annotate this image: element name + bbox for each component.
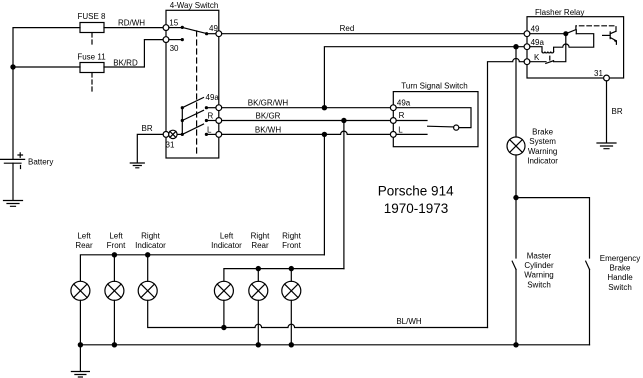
flasher internal: coil from 49a and loop to fixed contact — [530, 47, 542, 52]
svg-text:49a: 49a — [531, 38, 545, 47]
wire RD/WH fuse8 to 4-way 15 — [104, 27, 164, 29]
svg-text:BR: BR — [612, 107, 623, 116]
flasher internal: 49 feed to contact dot — [530, 33, 566, 35]
flasher terminal 49a — [524, 44, 530, 50]
node junction fuse11 branch — [10, 64, 15, 69]
svg-text:L: L — [207, 125, 212, 134]
wire K exit to BL/WH riser (hop at 516) — [488, 58, 525, 327]
svg-text:RD/WH: RD/WH — [118, 19, 145, 28]
wire left bus from fuses to battery — [13, 28, 80, 159]
ground battery — [4, 201, 23, 207]
lamp brake system warning indicator — [507, 137, 525, 155]
lamp Right Rear — [249, 281, 268, 300]
4-way internal: 15-49 contact — [169, 27, 182, 29]
wire BK/GR R to TS switch — [222, 120, 391, 122]
terminal 30 — [163, 37, 169, 43]
wire Red 4-way 49 to flasher 49 — [222, 33, 525, 35]
svg-text:Warning: Warning — [528, 147, 558, 156]
svg-text:Emergency: Emergency — [600, 254, 640, 263]
ground 4-way — [130, 163, 144, 168]
svg-text:System: System — [529, 137, 556, 146]
4-way internal: 30 stub — [169, 39, 182, 41]
wire BK/WH L to TS switch (hop at 343.9) — [222, 131, 391, 134]
svg-text:31: 31 — [166, 141, 175, 150]
ground bus — [80, 344, 589, 346]
svg-text:Fuse 11: Fuse 11 — [77, 53, 106, 62]
lamp Left Front — [105, 281, 124, 300]
wire left lamps feed (L circuit) — [80, 255, 324, 281]
svg-text:49: 49 — [209, 24, 218, 33]
wire BL/WH row (lamp3,4 to K riser) with hops — [148, 300, 488, 327]
terminal 15 — [163, 25, 169, 31]
flasher internal: contact rail down to K contact — [554, 34, 566, 62]
svg-text:Battery: Battery — [28, 158, 53, 167]
4-way internal: arm L — [181, 133, 184, 136]
fuse Fuse 11 — [80, 63, 104, 73]
svg-text:49: 49 — [531, 25, 540, 34]
svg-text:BK/WH: BK/WH — [255, 125, 281, 134]
svg-text:Brake: Brake — [532, 127, 553, 136]
svg-text:Right: Right — [282, 231, 301, 240]
svg-text:Warning: Warning — [524, 271, 554, 280]
wire battery to ground — [12, 163, 14, 200]
TS terminal 49a — [390, 105, 396, 111]
lamp top stubs — [114, 255, 291, 281]
wire BK/WH down to left lamps feed — [323, 134, 325, 254]
svg-text:BR: BR — [142, 124, 153, 133]
wire lamp to switches node — [515, 155, 517, 198]
svg-text:R: R — [208, 111, 214, 120]
lamp bottom wires — [80, 300, 291, 345]
svg-text:BL/WH: BL/WH — [396, 317, 422, 326]
svg-text:Right: Right — [251, 231, 270, 240]
svg-text:30: 30 — [170, 44, 179, 53]
flasher internal: K contact blade — [530, 61, 546, 63]
svg-text:Left: Left — [220, 231, 234, 240]
emergency brake handle switch — [586, 261, 590, 269]
svg-text:R: R — [399, 111, 405, 120]
Turn Signal Switch box — [393, 92, 478, 147]
svg-text:Brake: Brake — [610, 264, 631, 273]
flasher internal: dashed drive line — [576, 26, 616, 31]
ground lamps — [71, 372, 89, 378]
battery — [0, 158, 25, 160]
svg-text:BK/RD: BK/RD — [113, 59, 138, 68]
svg-text:Indicator: Indicator — [135, 241, 166, 250]
svg-text:K: K — [534, 53, 540, 62]
svg-text:Switch: Switch — [527, 280, 551, 289]
lamp Left Indicator — [214, 281, 233, 300]
svg-text:31: 31 — [594, 69, 603, 78]
4-way internal: arm 49a — [181, 106, 184, 109]
wire fuse11 feed — [13, 66, 80, 68]
svg-text:49a: 49a — [206, 93, 220, 102]
svg-text:Master: Master — [527, 251, 552, 260]
ground flasher — [597, 143, 616, 149]
wire brake indicator feed from 49a node — [515, 47, 517, 138]
TS terminal L — [390, 132, 396, 138]
svg-text:49a: 49a — [397, 99, 411, 108]
wire right lamps feed (R circuit) — [224, 269, 344, 282]
svg-text:Red: Red — [340, 24, 355, 33]
svg-text:15: 15 — [169, 18, 178, 27]
wire BR 31 to ground — [137, 134, 163, 162]
wire flasher 31 to ground — [606, 81, 608, 143]
svg-text:Front: Front — [107, 241, 126, 250]
terminal 49 — [216, 31, 222, 37]
svg-text:BK/GR: BK/GR — [256, 112, 281, 121]
4-way internal: pivot rail — [181, 108, 183, 135]
svg-text:Switch: Switch — [608, 283, 632, 292]
lamp Right Indicator — [138, 281, 157, 300]
svg-text:Handle: Handle — [607, 273, 633, 282]
flasher internal: moving contact arm — [566, 30, 576, 34]
terminal 31 — [163, 132, 169, 138]
svg-text:Indicator: Indicator — [527, 157, 558, 166]
svg-text:Porsche 914: Porsche 914 — [378, 184, 454, 199]
terminal R — [216, 118, 222, 124]
4-Way Switch box — [166, 10, 219, 158]
svg-text:Right: Right — [141, 231, 160, 240]
svg-text:Left: Left — [109, 231, 123, 240]
svg-text:Cylinder: Cylinder — [524, 261, 554, 270]
svg-text:4-Way Switch: 4-Way Switch — [170, 1, 219, 10]
terminal L — [216, 132, 222, 138]
fuse FUSE 8 — [80, 23, 104, 33]
svg-text:BK/GR/WH: BK/GR/WH — [248, 99, 289, 108]
flasher terminal 31 — [604, 75, 610, 81]
wire BK/GR down to right lamps feed — [343, 121, 345, 269]
svg-text:Left: Left — [77, 231, 91, 240]
indicator lamp in 4-way switch — [169, 130, 177, 138]
svg-text:Flasher Relay: Flasher Relay — [535, 8, 584, 17]
wire BK/RD fuse11 to 4-way 30 — [104, 40, 164, 67]
flasher terminal 49 — [524, 31, 530, 37]
master cylinder warning switch — [515, 198, 517, 258]
wire 49a link up to flasher 49a — [324, 47, 524, 108]
wire bus to ground — [79, 345, 81, 372]
TS terminal R — [390, 118, 396, 124]
wire BK/GR/WH 49a to TS switch — [222, 107, 391, 109]
wire to emergency brake branch — [516, 198, 590, 258]
svg-text:Indicator: Indicator — [211, 241, 242, 250]
lamp Right Front — [282, 281, 301, 300]
transistor in flasher — [609, 32, 611, 39]
svg-text:L: L — [398, 126, 403, 135]
node master/emergency branch to ground bus — [513, 342, 518, 347]
4-way internal: arm R — [181, 119, 184, 122]
svg-text:Turn Signal Switch: Turn Signal Switch — [401, 82, 467, 91]
svg-text:1970-1973: 1970-1973 — [384, 201, 449, 216]
svg-text:Front: Front — [282, 241, 301, 250]
flasher terminal K — [524, 59, 530, 65]
svg-text:Rear: Rear — [75, 241, 93, 250]
node dot on 49a link — [513, 44, 518, 49]
lamp Left Rear — [71, 281, 90, 300]
terminal 49a — [216, 105, 222, 111]
svg-text:Rear: Rear — [251, 241, 269, 250]
svg-text:FUSE 8: FUSE 8 — [77, 12, 106, 21]
TS internal wiring — [396, 108, 471, 128]
Flasher Relay box — [527, 17, 624, 78]
